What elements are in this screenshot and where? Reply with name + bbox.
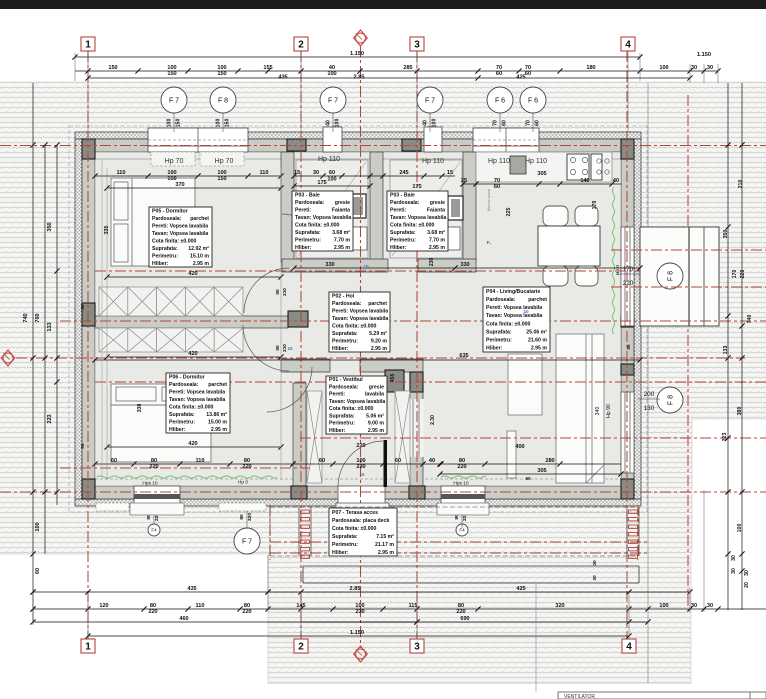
svg-text:Suprafata:: Suprafata: xyxy=(152,246,178,252)
svg-text:350: 350 xyxy=(47,222,53,231)
svg-text:175: 175 xyxy=(317,180,326,186)
svg-text:P04 - Living/Bucatarie: P04 - Living/Bucatarie xyxy=(486,289,540,295)
svg-text:60: 60 xyxy=(525,71,531,77)
marker F 6 x500 xyxy=(487,87,513,113)
svg-text:3.68 m²: 3.68 m² xyxy=(332,230,350,236)
svg-text:90: 90 xyxy=(275,345,280,351)
aux axis y271 xyxy=(95,270,640,272)
svg-text:Perimetru:: Perimetru: xyxy=(152,253,178,259)
svg-text:220: 220 xyxy=(247,513,253,521)
svg-text:435: 435 xyxy=(187,586,196,592)
svg-text:15.10 m: 15.10 m xyxy=(190,253,209,259)
interior dim 420 P05 xyxy=(104,271,283,280)
datum diamond bottom xyxy=(354,646,368,662)
terrace dashed boundary xyxy=(270,507,638,556)
svg-text:115: 115 xyxy=(408,603,417,609)
svg-text:Hp 110: Hp 110 xyxy=(422,158,444,165)
svg-text:2.95 m: 2.95 m xyxy=(211,427,228,433)
svg-text:Pereti: Vopsea lavabila: Pereti: Vopsea lavabila xyxy=(486,305,542,311)
left dim outer xyxy=(23,83,41,622)
sill box window sm xyxy=(437,503,489,515)
partition wall bath1/bath2 xyxy=(370,152,383,262)
svg-text:F 8: F 8 xyxy=(668,395,675,405)
svg-text:Pereti: Vopsea lavabila: Pereti: Vopsea lavabila xyxy=(152,223,208,229)
dining chairs bottom xyxy=(543,266,598,286)
svg-text:F 6: F 6 xyxy=(528,98,538,105)
concrete piers xyxy=(82,139,634,499)
aux axis terrace 1 xyxy=(270,541,648,543)
svg-text:1: 1 xyxy=(85,39,91,50)
svg-text:30: 30 xyxy=(313,170,319,176)
svg-text:330: 330 xyxy=(137,404,143,413)
svg-text:Tavan: Vopsea lavabila: Tavan: Vopsea lavabila xyxy=(486,313,542,319)
svg-text:Suprafata:: Suprafata: xyxy=(486,330,512,336)
room data P02 Hol xyxy=(329,292,390,352)
svg-text:Hliber:: Hliber: xyxy=(152,261,169,267)
ground hatch mid field xyxy=(0,419,692,554)
room data P06 Dormitor xyxy=(166,373,230,433)
kitchen appliance 2 xyxy=(591,154,609,180)
svg-text:460: 460 xyxy=(179,616,188,622)
svg-text:100: 100 xyxy=(737,524,743,533)
svg-text:330: 330 xyxy=(325,262,334,268)
hatch boundary lines xyxy=(0,419,766,684)
interior dim baths xyxy=(291,170,455,183)
svg-text:7.70 m: 7.70 m xyxy=(429,237,446,243)
window W1 interior sills xyxy=(151,152,244,166)
room data P07 Terasa xyxy=(329,508,397,556)
svg-text:220: 220 xyxy=(242,464,251,470)
svg-text:Cota finita: ±0.000: Cota finita: ±0.000 xyxy=(152,238,196,244)
sofa xyxy=(556,334,604,483)
svg-text:40: 40 xyxy=(429,458,435,464)
svg-text:220: 220 xyxy=(149,464,158,470)
interior guide line x281 xyxy=(280,168,282,480)
svg-text:10: 10 xyxy=(287,346,293,351)
svg-text:340: 340 xyxy=(595,407,601,416)
right aux line xyxy=(703,490,705,612)
extension lines top xyxy=(75,51,718,132)
svg-text:335: 335 xyxy=(104,226,110,235)
stem line xyxy=(429,113,431,132)
svg-text:F 6: F 6 xyxy=(495,98,505,105)
svg-text:P07 - Terasa acces: P07 - Terasa acces xyxy=(332,510,378,516)
room data P01 Vestibul xyxy=(326,376,387,434)
ground hatch bottom band xyxy=(268,554,691,684)
svg-text:P03 - Baie: P03 - Baie xyxy=(390,192,415,198)
marker F8 east upper xyxy=(657,263,683,289)
svg-text:Hliber:: Hliber: xyxy=(332,550,349,556)
svg-text:100: 100 xyxy=(659,603,668,609)
kitchen counter north xyxy=(476,152,612,182)
svg-text:223: 223 xyxy=(722,433,728,442)
svg-text:2.30: 2.30 xyxy=(430,415,436,425)
svg-text:gresie: gresie xyxy=(335,200,350,206)
right dim outer xyxy=(739,83,744,610)
label 200/130 east xyxy=(638,391,660,412)
svg-text:Perimetru:: Perimetru: xyxy=(486,338,512,344)
building interior floor xyxy=(95,152,621,486)
svg-text:740: 740 xyxy=(23,313,29,322)
svg-text:30: 30 xyxy=(731,555,737,561)
svg-text:320: 320 xyxy=(555,603,564,609)
svg-text:Cota finita: ±0.000: Cota finita: ±0.000 xyxy=(332,526,376,532)
svg-text:Hp 70: Hp 70 xyxy=(215,158,234,165)
svg-text:150: 150 xyxy=(167,71,176,77)
svg-text:Tavan: Vopsea lavabila: Tavan: Vopsea lavabila xyxy=(169,397,225,403)
svg-text:Perimetru:: Perimetru: xyxy=(295,237,321,243)
dim 435 top xyxy=(85,75,480,81)
svg-text:parchet: parchet xyxy=(208,382,227,388)
svg-text:Tavan: Vopsea lavabila: Tavan: Vopsea lavabila xyxy=(152,231,208,237)
svg-text:220: 220 xyxy=(623,280,634,287)
svg-text:Hliber:: Hliber: xyxy=(390,245,407,251)
bath1 sink xyxy=(346,227,367,250)
stem F4 sw xyxy=(153,506,155,524)
drain ladder east xyxy=(627,507,639,558)
svg-text:760: 760 xyxy=(35,313,41,322)
inner face strip xyxy=(101,159,103,479)
svg-text:Hp 110: Hp 110 xyxy=(525,158,547,165)
svg-text:220: 220 xyxy=(242,609,251,615)
svg-text:20: 20 xyxy=(744,582,750,588)
entrance door leaf xyxy=(384,440,388,487)
svg-text:3: 3 xyxy=(414,641,420,652)
marker F4 south-mid xyxy=(456,524,468,536)
svg-text:60: 60 xyxy=(494,184,500,190)
grid bubble 1 bottom xyxy=(81,639,95,653)
svg-text:150: 150 xyxy=(176,119,182,128)
svg-text:Hps 10: Hps 10 xyxy=(453,481,469,487)
marker F 7 x174 xyxy=(161,87,187,113)
svg-text:2: 2 xyxy=(298,39,304,50)
interior dim 420 P06 lower xyxy=(104,441,283,450)
svg-text:70: 70 xyxy=(526,120,532,126)
window kitchen xyxy=(473,128,539,152)
svg-text:Suprafata:: Suprafata: xyxy=(169,412,195,418)
bath1 fixtures xyxy=(296,160,368,258)
svg-text:parchet: parchet xyxy=(368,301,387,307)
svg-text:690: 690 xyxy=(460,616,469,622)
svg-text:25: 25 xyxy=(461,178,467,184)
datum diamond left xyxy=(1,350,15,366)
svg-text:10: 10 xyxy=(363,264,369,269)
svg-text:60: 60 xyxy=(535,120,541,126)
aux axis y468 xyxy=(60,467,310,469)
svg-text:30: 30 xyxy=(592,560,598,566)
svg-text:Tavan: Vopsea lavabila: Tavan: Vopsea lavabila xyxy=(332,316,388,322)
axis A horizontal xyxy=(0,145,766,147)
svg-text:15.00 m: 15.00 m xyxy=(208,419,227,425)
svg-text:5.06 m²: 5.06 m² xyxy=(366,414,384,420)
svg-text:2: 2 xyxy=(298,641,304,652)
left dim inner xyxy=(47,142,60,505)
svg-text:100: 100 xyxy=(35,522,41,531)
kitchen stove xyxy=(567,154,589,180)
svg-text:130: 130 xyxy=(644,405,655,412)
ground hatch upper field xyxy=(0,81,766,419)
svg-text:60: 60 xyxy=(525,476,531,481)
wardrobe P06 (x-grid) xyxy=(99,287,243,352)
svg-text:2.95 m: 2.95 m xyxy=(334,245,351,251)
svg-text:370: 370 xyxy=(175,182,184,188)
inner face lines xyxy=(95,152,621,486)
marker F7 bottom xyxy=(234,528,260,554)
marker F 7 x333 xyxy=(320,87,346,113)
svg-text:150: 150 xyxy=(217,71,226,77)
svg-text:2.85: 2.85 xyxy=(354,75,365,81)
svg-text:70: 70 xyxy=(493,120,499,126)
svg-text:100: 100 xyxy=(167,119,173,128)
svg-text:parchet: parchet xyxy=(528,297,547,303)
svg-text:220: 220 xyxy=(457,464,466,470)
marker F8 east lower xyxy=(657,387,683,413)
dim row top xyxy=(75,65,721,77)
svg-text:Hliber:: Hliber: xyxy=(486,346,503,352)
svg-text:420: 420 xyxy=(188,441,197,447)
stem line xyxy=(499,113,501,132)
aux axis y316 xyxy=(60,320,766,322)
svg-text:21.17 m: 21.17 m xyxy=(375,542,394,548)
svg-text:100: 100 xyxy=(432,119,438,128)
svg-text:3.68 m²: 3.68 m² xyxy=(427,230,445,236)
svg-text:30: 30 xyxy=(731,568,737,574)
grid bubble 2 bottom xyxy=(294,639,308,653)
svg-text:F 7: F 7 xyxy=(169,98,179,105)
svg-text:Perimetru:: Perimetru: xyxy=(332,542,358,548)
svg-text:740: 740 xyxy=(747,315,753,324)
svg-text:2.95 m: 2.95 m xyxy=(371,346,388,352)
axis east vertical xyxy=(687,95,689,610)
svg-text:175: 175 xyxy=(412,184,421,190)
svg-text:Pereti: Vopsea lavabila: Pereti: Vopsea lavabila xyxy=(332,308,388,314)
svg-text:F4: F4 xyxy=(459,528,465,533)
svg-text:Faianta: Faianta xyxy=(427,207,445,213)
svg-text:80: 80 xyxy=(239,514,245,520)
svg-text:230: 230 xyxy=(429,258,435,267)
svg-text:12.92 m²: 12.92 m² xyxy=(188,246,209,252)
svg-text:Cota finita: ±0.000: Cota finita: ±0.000 xyxy=(329,406,373,412)
svg-text:Pereti: Vopsea lavabila: Pereti: Vopsea lavabila xyxy=(169,389,225,395)
svg-text:4: 4 xyxy=(626,641,632,652)
svg-text:Cota finita: ±0.000: Cota finita: ±0.000 xyxy=(486,321,530,327)
svg-text:60: 60 xyxy=(319,458,325,464)
room data P04 Living xyxy=(483,287,550,352)
svg-text:Suprafata:: Suprafata: xyxy=(329,414,355,420)
thermal line south-mid Hp10 xyxy=(441,476,486,478)
svg-text:Pardoseala:: Pardoseala: xyxy=(295,200,325,206)
aux axis terrace east xyxy=(637,505,639,560)
axis 4 vertical xyxy=(626,51,628,639)
dining table xyxy=(538,226,600,266)
aux axis east y287 xyxy=(611,286,766,288)
svg-text:100: 100 xyxy=(327,177,336,183)
window living south xyxy=(441,486,485,511)
svg-text:210: 210 xyxy=(738,180,744,189)
svg-text:60: 60 xyxy=(502,120,508,126)
svg-text:400: 400 xyxy=(515,444,524,450)
svg-text:420: 420 xyxy=(188,351,197,357)
svg-text:Tavan: Vopsea lavabila: Tavan: Vopsea lavabila xyxy=(390,215,446,221)
vestibule/living door opening xyxy=(410,399,424,457)
svg-text:280: 280 xyxy=(545,458,554,464)
svg-text:150: 150 xyxy=(225,119,231,128)
interior dim 370 xyxy=(104,182,283,191)
svg-text:Suprafata:: Suprafata: xyxy=(332,331,358,337)
svg-text:120: 120 xyxy=(99,603,108,609)
dim 690 bottom xyxy=(301,616,651,625)
exterior insulation frame xyxy=(75,132,641,506)
svg-text:Cota finita: ±0.000: Cota finita: ±0.000 xyxy=(169,404,213,410)
wardrobe vestibule xyxy=(307,391,322,483)
svg-text:15: 15 xyxy=(294,170,300,176)
svg-text:30: 30 xyxy=(592,575,598,581)
svg-text:210: 210 xyxy=(282,344,287,352)
sill box window sw xyxy=(130,503,184,515)
stem line xyxy=(173,113,175,132)
partition wall bath2/living xyxy=(463,152,476,262)
svg-text:220: 220 xyxy=(148,609,157,615)
interior dim row P05 xyxy=(92,170,283,182)
svg-text:305: 305 xyxy=(537,468,546,474)
drain ladder west xyxy=(299,507,311,558)
svg-text:1.150: 1.150 xyxy=(350,630,364,636)
svg-text:7.15 m²: 7.15 m² xyxy=(376,534,394,540)
svg-text:Perimetru:: Perimetru: xyxy=(329,421,355,427)
stem line xyxy=(332,113,334,132)
svg-text:110: 110 xyxy=(259,170,268,176)
svg-text:150: 150 xyxy=(108,65,117,71)
svg-text:Hliber:: Hliber: xyxy=(295,245,312,251)
svg-text:13.86 m²: 13.86 m² xyxy=(206,412,227,418)
axis 2 vertical xyxy=(300,51,302,639)
interior dim 175 xyxy=(291,180,372,189)
svg-text:435: 435 xyxy=(278,75,287,81)
svg-text:60: 60 xyxy=(496,71,502,77)
interior dim 635 xyxy=(92,353,642,363)
sofa end element xyxy=(507,431,516,478)
window bath2 xyxy=(424,127,442,152)
svg-text:Pardoseala:: Pardoseala: xyxy=(486,297,516,303)
plot divider line xyxy=(535,584,537,692)
partition wall top rooms / hall xyxy=(282,259,476,272)
stem line xyxy=(222,113,224,132)
marker F4 south-west xyxy=(148,524,160,536)
grid bubble 2 top xyxy=(294,37,308,51)
dim 1.150 bottom xyxy=(85,630,631,639)
svg-text:1: 1 xyxy=(85,641,91,652)
extension lines bottom xyxy=(33,555,690,639)
grid bubble 3 bottom xyxy=(410,639,424,653)
svg-text:F 7: F 7 xyxy=(328,98,338,105)
svg-text:Suprafata:: Suprafata: xyxy=(295,230,321,236)
svg-text:30: 30 xyxy=(744,570,750,576)
svg-text:Masina spalat: Masina spalat xyxy=(487,189,491,211)
svg-text:VENTILATOR: VENTILATOR xyxy=(564,694,595,699)
axis C horizontal xyxy=(0,491,766,493)
room data P05 Dormitor xyxy=(149,207,212,267)
svg-text:170: 170 xyxy=(623,266,634,273)
svg-text:2.95 m: 2.95 m xyxy=(531,346,548,352)
marker F 6 x533 xyxy=(520,87,546,113)
svg-text:330: 330 xyxy=(460,262,469,268)
marker F 8 x223 xyxy=(210,87,236,113)
room data P03 Baie 2 xyxy=(387,191,448,251)
thermal line east Hp0 xyxy=(612,187,614,334)
svg-text:150: 150 xyxy=(217,176,226,182)
svg-text:30: 30 xyxy=(707,65,713,71)
window bath1 xyxy=(323,127,342,152)
svg-text:9.00 m: 9.00 m xyxy=(368,421,385,427)
svg-text:lavabila: lavabila xyxy=(365,392,384,398)
svg-text:2.95 m: 2.95 m xyxy=(368,428,385,434)
svg-text:80: 80 xyxy=(80,443,85,449)
svg-text:P05 - Dormitor: P05 - Dormitor xyxy=(152,208,188,214)
svg-text:3: 3 xyxy=(414,39,420,50)
aux axis terrace 2 xyxy=(270,552,648,554)
entrance steps xyxy=(336,503,389,525)
svg-text:10: 10 xyxy=(523,309,529,314)
svg-text:100: 100 xyxy=(216,119,222,128)
svg-text:Pardoseala:: Pardoseala: xyxy=(169,382,199,388)
sill box sw2 xyxy=(219,503,266,511)
svg-text:Pardoseala:: Pardoseala: xyxy=(152,216,182,222)
svg-text:40: 40 xyxy=(423,120,429,126)
svg-text:90: 90 xyxy=(275,289,280,295)
interior dim row P06 south xyxy=(92,458,295,470)
svg-text:110: 110 xyxy=(116,170,125,176)
svg-text:350: 350 xyxy=(723,230,729,239)
svg-text:Faianta: Faianta xyxy=(332,207,350,213)
svg-text:220: 220 xyxy=(740,270,746,279)
svg-text:Tavan: Vopsea lavabila: Tavan: Vopsea lavabila xyxy=(295,215,351,221)
svg-text:Perimetru:: Perimetru: xyxy=(390,237,416,243)
svg-text:1.150: 1.150 xyxy=(697,52,711,58)
svg-text:Pardoseala: placa deck: Pardoseala: placa deck xyxy=(332,518,389,524)
grid bubble 4 bottom xyxy=(622,639,636,653)
sill box sw1 xyxy=(96,503,129,511)
svg-text:60: 60 xyxy=(35,568,41,574)
svg-text:Hp 110: Hp 110 xyxy=(318,156,340,163)
interior dim kitchen xyxy=(460,171,621,190)
label 170/220 east xyxy=(617,266,640,287)
exterior window bay deck xyxy=(640,227,719,326)
window W1 top-left xyxy=(148,128,248,152)
svg-text:635: 635 xyxy=(459,353,468,359)
dim 460 bottom xyxy=(30,616,419,625)
svg-text:1.150: 1.150 xyxy=(350,51,364,57)
svg-text:170: 170 xyxy=(592,201,598,210)
svg-text:15: 15 xyxy=(447,170,453,176)
svg-text:Hps 10: Hps 10 xyxy=(142,481,158,487)
svg-text:425: 425 xyxy=(516,75,525,81)
partition wall P06 / vestibule xyxy=(293,383,306,486)
svg-text:220: 220 xyxy=(456,609,465,615)
svg-text:285: 285 xyxy=(403,65,412,71)
closet vestibule right xyxy=(395,391,410,483)
svg-text:Pereti:: Pereti: xyxy=(390,207,406,213)
svg-text:100: 100 xyxy=(659,65,668,71)
svg-text:21.60 m: 21.60 m xyxy=(528,338,547,344)
grid bubble 4 top xyxy=(621,37,635,51)
svg-text:30: 30 xyxy=(691,65,697,71)
svg-text:2.95 m: 2.95 m xyxy=(193,261,210,267)
svg-text:Hliber:: Hliber: xyxy=(329,428,346,434)
grid bubble 3 top xyxy=(410,37,424,51)
svg-text:parchet: parchet xyxy=(190,216,209,222)
svg-text:Pereti:: Pereti: xyxy=(329,392,345,398)
svg-text:Hliber:: Hliber: xyxy=(169,427,186,433)
